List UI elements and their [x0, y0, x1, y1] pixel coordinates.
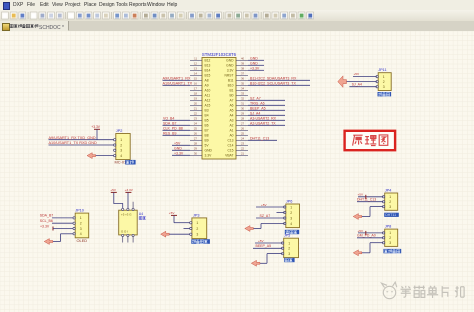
- svg-text:35: 35: [241, 82, 245, 86]
- svg-text:TRIG_A6: TRIG_A6: [250, 101, 265, 105]
- svg-text:+5V: +5V: [110, 188, 117, 192]
- ground (JP3): [161, 231, 170, 237]
- svg-text:26: 26: [194, 132, 198, 136]
- ground (JP2): [87, 153, 96, 159]
- svg-text:3: 3: [389, 205, 391, 209]
- svg-text:39: 39: [241, 62, 245, 66]
- svg-text:1: 1: [389, 195, 391, 199]
- svg-text:2: 2: [196, 227, 198, 231]
- svg-text:3: 3: [290, 216, 292, 220]
- svg-text:30: 30: [194, 152, 198, 156]
- svg-text:24: 24: [241, 137, 245, 141]
- svg-text:B8: B8: [205, 134, 209, 138]
- svg-text:33: 33: [241, 92, 245, 96]
- watermark text: [401, 286, 465, 299]
- svg-text:+5 +3 G: +5 +3 G: [121, 212, 132, 216]
- svg-text:A9/USART1_RX TXD_GND: A9/USART1_RX TXD_GND: [49, 136, 96, 140]
- wire net A2-USART2_TX: [248, 121, 285, 125]
- svg-text:B15: B15: [205, 74, 211, 78]
- svg-text:GND: GND: [226, 59, 234, 63]
- svg-text:31: 31: [241, 102, 245, 106]
- svg-text:DHT11: DHT11: [385, 213, 396, 217]
- svg-text:40: 40: [241, 57, 245, 61]
- svg-text:B11-I2C2_SDA/USART3_RX: B11-I2C2_SDA/USART3_RX: [250, 76, 297, 80]
- svg-text:A2-USART2_TX: A2-USART2_TX: [250, 121, 276, 125]
- svg-text:20: 20: [194, 102, 198, 106]
- ground (JP11): [338, 76, 347, 88]
- svg-text:A9: A9: [205, 84, 209, 88]
- svg-text:22: 22: [241, 147, 245, 151]
- power +5V (JP3): [169, 211, 190, 223]
- svg-text:DHT11_C13: DHT11_C13: [357, 198, 376, 202]
- label MC-01 display module: [115, 160, 136, 165]
- svg-text:+5V: +5V: [358, 229, 365, 233]
- svg-text:A4: A4: [229, 114, 233, 118]
- svg-text:25: 25: [241, 132, 245, 136]
- svg-text:JP6: JP6: [286, 200, 293, 204]
- watermark logo: [382, 282, 397, 298]
- svg-text:A3-USART2_RX: A3-USART2_RX: [250, 116, 277, 120]
- svg-text:37: 37: [241, 72, 245, 76]
- svg-text:SCL_B6: SCL_B6: [40, 219, 53, 223]
- svg-text:3: 3: [288, 252, 290, 256]
- svg-text:4: 4: [120, 154, 122, 158]
- label DHT11 (selected): [384, 213, 399, 217]
- svg-text:A12: A12: [205, 99, 211, 103]
- label relay (selected): [285, 230, 299, 234]
- svg-text:A9/USART1_RX: A9/USART1_RX: [163, 76, 191, 80]
- svg-text:STM32F103C8T6: STM32F103C8T6: [202, 52, 237, 57]
- svg-text:A11: A11: [205, 94, 211, 98]
- svg-text:+5V: +5V: [261, 203, 268, 207]
- svg-text:B7: B7: [205, 129, 209, 133]
- wire to ground (JP6 pin4): [253, 224, 285, 229]
- wire net +3.3V (left): [172, 151, 190, 155]
- svg-text:SDA_B7: SDA_B7: [163, 121, 176, 125]
- ground (JP6): [245, 226, 254, 232]
- connector JP5 (button/beeper): [281, 234, 298, 258]
- menu bar: [0, 0, 474, 11]
- designator U4: [139, 212, 146, 219]
- svg-text:25: 25: [194, 127, 198, 131]
- svg-text:14: 14: [194, 72, 198, 76]
- svg-text:BEEP_A5: BEEP_A5: [256, 244, 272, 248]
- label power interface (selected): [191, 239, 210, 244]
- wire to ground (JP11 pin2): [346, 81, 377, 83]
- svg-text:VBAT: VBAT: [225, 154, 233, 158]
- wire net SJ_A4 (JP11 pin3): [349, 82, 376, 86]
- svg-text:GM_PD_A0: GM_PD_A0: [357, 234, 376, 238]
- power +5V (U4): [110, 188, 122, 208]
- wire net DHT11_C13: [248, 136, 277, 140]
- svg-text:26: 26: [241, 127, 245, 131]
- label module (selected): [378, 92, 392, 96]
- svg-text:RES_B9: RES_B9: [163, 131, 176, 135]
- svg-text:B12: B12: [205, 59, 211, 63]
- svg-text:A1: A1: [229, 129, 233, 133]
- ground (JP4): [353, 214, 362, 220]
- wire net BEEP_A5: [248, 106, 285, 110]
- wire net RES_B9: [163, 131, 191, 135]
- svg-text:A3: A3: [229, 119, 233, 123]
- wire net A9/USART1_RX: [163, 76, 191, 80]
- svg-text:A15: A15: [205, 104, 211, 108]
- svg-text:C13: C13: [227, 139, 233, 143]
- svg-text:A6: A6: [229, 104, 233, 108]
- svg-text:27: 27: [194, 137, 198, 141]
- svg-text:GND: GND: [174, 146, 182, 150]
- wire net TRIG_A6: [248, 101, 285, 105]
- svg-text:21: 21: [194, 107, 198, 111]
- svg-text:4: 4: [290, 222, 292, 226]
- svg-text:+5V: +5V: [354, 72, 361, 76]
- svg-text:A10/USART1_TX: A10/USART1_TX: [163, 81, 193, 85]
- svg-text:A2: A2: [229, 124, 233, 128]
- svg-text:JP2: JP2: [116, 129, 123, 133]
- svg-text:U4: U4: [139, 212, 143, 216]
- wire to ground (JP3 pin3): [169, 233, 190, 235]
- svg-text:15: 15: [194, 77, 198, 81]
- svg-text:3: 3: [80, 227, 82, 231]
- svg-text:C15: C15: [227, 149, 233, 153]
- svg-text:JP4: JP4: [385, 189, 392, 193]
- svg-text:38: 38: [241, 67, 245, 71]
- connector JP3 (power input): [190, 213, 207, 238]
- document tab: [0, 21, 474, 32]
- svg-text:SJ_A4: SJ_A4: [250, 111, 260, 115]
- wire net GND (left): [172, 146, 190, 150]
- pin stub (JP6 pin2): [277, 212, 285, 214]
- connector JP2 (display module): [114, 129, 131, 160]
- power +5V wire (JP5 pin1): [255, 239, 282, 243]
- wire net SCL_B6: [40, 219, 73, 223]
- wire net +5V (left): [172, 141, 190, 145]
- svg-text:A8: A8: [205, 79, 209, 83]
- svg-text:+3.3V: +3.3V: [91, 125, 101, 129]
- power +3.3V (OLED pin3): [40, 224, 73, 230]
- svg-text:2: 2: [120, 143, 122, 147]
- ground (OLED): [44, 239, 53, 245]
- svg-text:G O I: G O I: [121, 230, 128, 234]
- svg-text:12: 12: [194, 62, 198, 66]
- svg-text:+3.3V: +3.3V: [250, 66, 260, 70]
- wire to ground (OLED pin4): [52, 234, 73, 242]
- svg-text:34: 34: [241, 87, 245, 91]
- svg-text:B9: B9: [205, 139, 209, 143]
- wire net A3-USART2_RX: [248, 116, 285, 120]
- svg-text:21: 21: [241, 152, 245, 156]
- svg-text:24: 24: [194, 122, 198, 126]
- svg-text:30: 30: [241, 107, 245, 111]
- wire net GND (right): [248, 61, 264, 65]
- MCU U1 STM32F103C8T6: [190, 52, 248, 159]
- svg-text:GND: GND: [226, 64, 234, 68]
- svg-text:28: 28: [241, 117, 245, 121]
- wire net A10/USART1_TX: [163, 81, 193, 85]
- wire net SDA_B7: [40, 214, 73, 218]
- connector JP8 (light sensor): [382, 225, 397, 247]
- power +5V wire (JP6 pin1): [256, 203, 285, 207]
- svg-text:27: 27: [241, 122, 245, 126]
- svg-text:13: 13: [194, 67, 198, 71]
- svg-text:36: 36: [241, 77, 245, 81]
- svg-text:2: 2: [288, 247, 290, 251]
- svg-text:CLK_PD_B8: CLK_PD_B8: [163, 126, 183, 130]
- wire net A10/USART1_TX_RXD GND: [49, 141, 114, 145]
- svg-text:18: 18: [194, 92, 198, 96]
- ground (JP5): [251, 260, 260, 266]
- svg-text:B10: B10: [228, 84, 234, 88]
- wire to ground (JP2 pin4): [96, 155, 114, 157]
- svg-text:GND: GND: [205, 149, 213, 153]
- wire net SDA_B7: [163, 121, 191, 125]
- wire to ground (JP8 pin3): [361, 243, 383, 253]
- svg-text:SJ_A4: SJ_A4: [352, 82, 362, 86]
- connector JP10 (OLED): [73, 209, 89, 238]
- ground (JP8): [353, 250, 362, 256]
- connector JP4 (DHT11): [382, 189, 397, 211]
- svg-text:29: 29: [194, 147, 198, 151]
- svg-text:2: 2: [80, 222, 82, 226]
- svg-text:19: 19: [194, 97, 198, 101]
- svg-text:+3.3V: +3.3V: [125, 188, 134, 192]
- svg-text:1: 1: [196, 221, 198, 225]
- svg-text:GND: GND: [250, 61, 258, 65]
- wire net GM_PD_A0 (JP8 pin2): [357, 234, 383, 238]
- svg-text:B6: B6: [205, 124, 209, 128]
- svg-text:A10: A10: [205, 89, 211, 93]
- power +3.3V (U4): [125, 188, 134, 208]
- power +3.3V (JP2): [91, 125, 101, 140]
- svg-text:+5V: +5V: [358, 193, 365, 197]
- wire net SZ_A7: [248, 96, 285, 100]
- wire to ground (JP4 pin3): [361, 207, 383, 217]
- power +5V wire (JP8 pin1): [358, 229, 384, 235]
- svg-text:2: 2: [389, 236, 391, 240]
- svg-text:1: 1: [80, 216, 82, 220]
- label button (selected): [284, 258, 294, 262]
- connector JP11 (bluetooth module): [376, 68, 391, 90]
- svg-text:+5V: +5V: [258, 239, 265, 243]
- svg-text:SDA_B7: SDA_B7: [40, 214, 53, 218]
- svg-text:B4: B4: [205, 114, 209, 118]
- svg-text:1: 1: [290, 205, 292, 209]
- svg-text:28: 28: [194, 142, 198, 146]
- svg-text:A5: A5: [229, 109, 233, 113]
- svg-text:A10/USART1_TX RXD GND: A10/USART1_TX RXD GND: [49, 141, 98, 145]
- svg-text:A0: A0: [229, 134, 233, 138]
- svg-text:23: 23: [241, 142, 245, 146]
- svg-text:4: 4: [80, 232, 82, 236]
- svg-text:B13: B13: [205, 64, 211, 68]
- wire net SJ_A4: [248, 111, 285, 115]
- wire net B11-I2C2_SDA/USART3_RX: [248, 76, 310, 80]
- svg-text:3: 3: [383, 85, 385, 89]
- wire net CLK_PD_B8: [163, 126, 191, 130]
- svg-text:SCHDOC *: SCHDOC *: [39, 25, 64, 31]
- svg-text:+3.3V: +3.3V: [174, 151, 184, 155]
- wire net A9/USART1_RX_TXD GND: [49, 136, 114, 140]
- svg-text:1: 1: [383, 75, 385, 79]
- connector JP6 (relay): [284, 200, 300, 228]
- svg-text:DHT11_C13: DHT11_C13: [250, 136, 269, 140]
- svg-text:3.3V: 3.3V: [227, 69, 235, 73]
- svg-text:2: 2: [389, 200, 391, 204]
- svg-text:B10-I2C2_SCL/USART3_TX: B10-I2C2_SCL/USART3_TX: [250, 81, 296, 85]
- svg-text:JP5: JP5: [284, 234, 291, 238]
- svg-text:B11: B11: [228, 79, 234, 83]
- wire net +3.3V (right): [248, 66, 264, 70]
- svg-text:MC-01: MC-01: [115, 160, 127, 165]
- svg-text:16: 16: [194, 82, 198, 86]
- svg-text:1: 1: [120, 138, 122, 142]
- toolbar: [0, 10, 474, 22]
- svg-text:3: 3: [120, 149, 122, 153]
- svg-text:2: 2: [383, 80, 385, 84]
- svg-text:3: 3: [196, 233, 198, 237]
- svg-text:+5V: +5V: [174, 141, 181, 145]
- pin stub (U4 pin3 top): [132, 202, 134, 209]
- svg-text:23: 23: [194, 117, 198, 121]
- svg-text:JP8: JP8: [385, 225, 392, 229]
- svg-text:32: 32: [241, 97, 245, 101]
- svg-text:C14: C14: [227, 144, 233, 148]
- wire net SZ_A7 (JP6 pin3): [256, 214, 285, 218]
- svg-text:+3.3V: +3.3V: [40, 224, 50, 228]
- svg-text:B1: B1: [229, 89, 233, 93]
- pin stub (JP3 pin2): [184, 228, 190, 230]
- svg-text:OLED: OLED: [77, 238, 88, 243]
- svg-text:VO_B4: VO_B4: [163, 116, 174, 120]
- wire net BEEP_A5 (JP5 pin2): [253, 244, 282, 248]
- svg-text:29: 29: [241, 112, 245, 116]
- wire net VO_B4: [163, 116, 191, 120]
- svg-text:1: 1: [389, 231, 391, 235]
- svg-text:SZ_A7: SZ_A7: [250, 96, 261, 100]
- svg-text:17: 17: [194, 87, 198, 91]
- power +5V wire (JP4 pin1): [358, 193, 384, 199]
- wire net B10-I2C2_SCL/USART3_TX: [248, 81, 310, 85]
- svg-text:BEEP_A5: BEEP_A5: [250, 106, 266, 110]
- label OLED: [77, 238, 88, 243]
- svg-text:JP10: JP10: [75, 209, 84, 213]
- svg-text:22: 22: [194, 112, 198, 116]
- svg-text:GND: GND: [250, 56, 258, 60]
- svg-text:11: 11: [194, 57, 197, 61]
- svg-text:B5: B5: [205, 119, 209, 123]
- svg-text:NRST: NRST: [225, 74, 234, 78]
- wire net GND (right): [248, 56, 264, 60]
- svg-text:B3: B3: [205, 109, 209, 113]
- wire net DHT11_C13 (JP4 pin2): [357, 198, 383, 202]
- svg-text:B0: B0: [229, 94, 233, 98]
- svg-text:SZ_A7: SZ_A7: [260, 214, 271, 218]
- power module U4: [119, 208, 138, 242]
- svg-text:JP3: JP3: [193, 213, 200, 217]
- svg-text:+5V: +5V: [169, 211, 176, 215]
- svg-text:1: 1: [288, 241, 290, 245]
- svg-text:B14: B14: [205, 69, 211, 73]
- svg-text:3: 3: [389, 241, 391, 245]
- wire to ground (JP5 pin3): [260, 254, 283, 264]
- svg-text:JP11: JP11: [378, 68, 386, 72]
- svg-text:A7: A7: [229, 99, 233, 103]
- power +5V wire (JP11 pin1): [353, 72, 377, 76]
- svg-text:2: 2: [290, 211, 292, 215]
- annotation stamp box (schematic): [345, 131, 396, 150]
- label light sensor (selected): [383, 249, 401, 253]
- svg-text:3.3V: 3.3V: [205, 154, 213, 158]
